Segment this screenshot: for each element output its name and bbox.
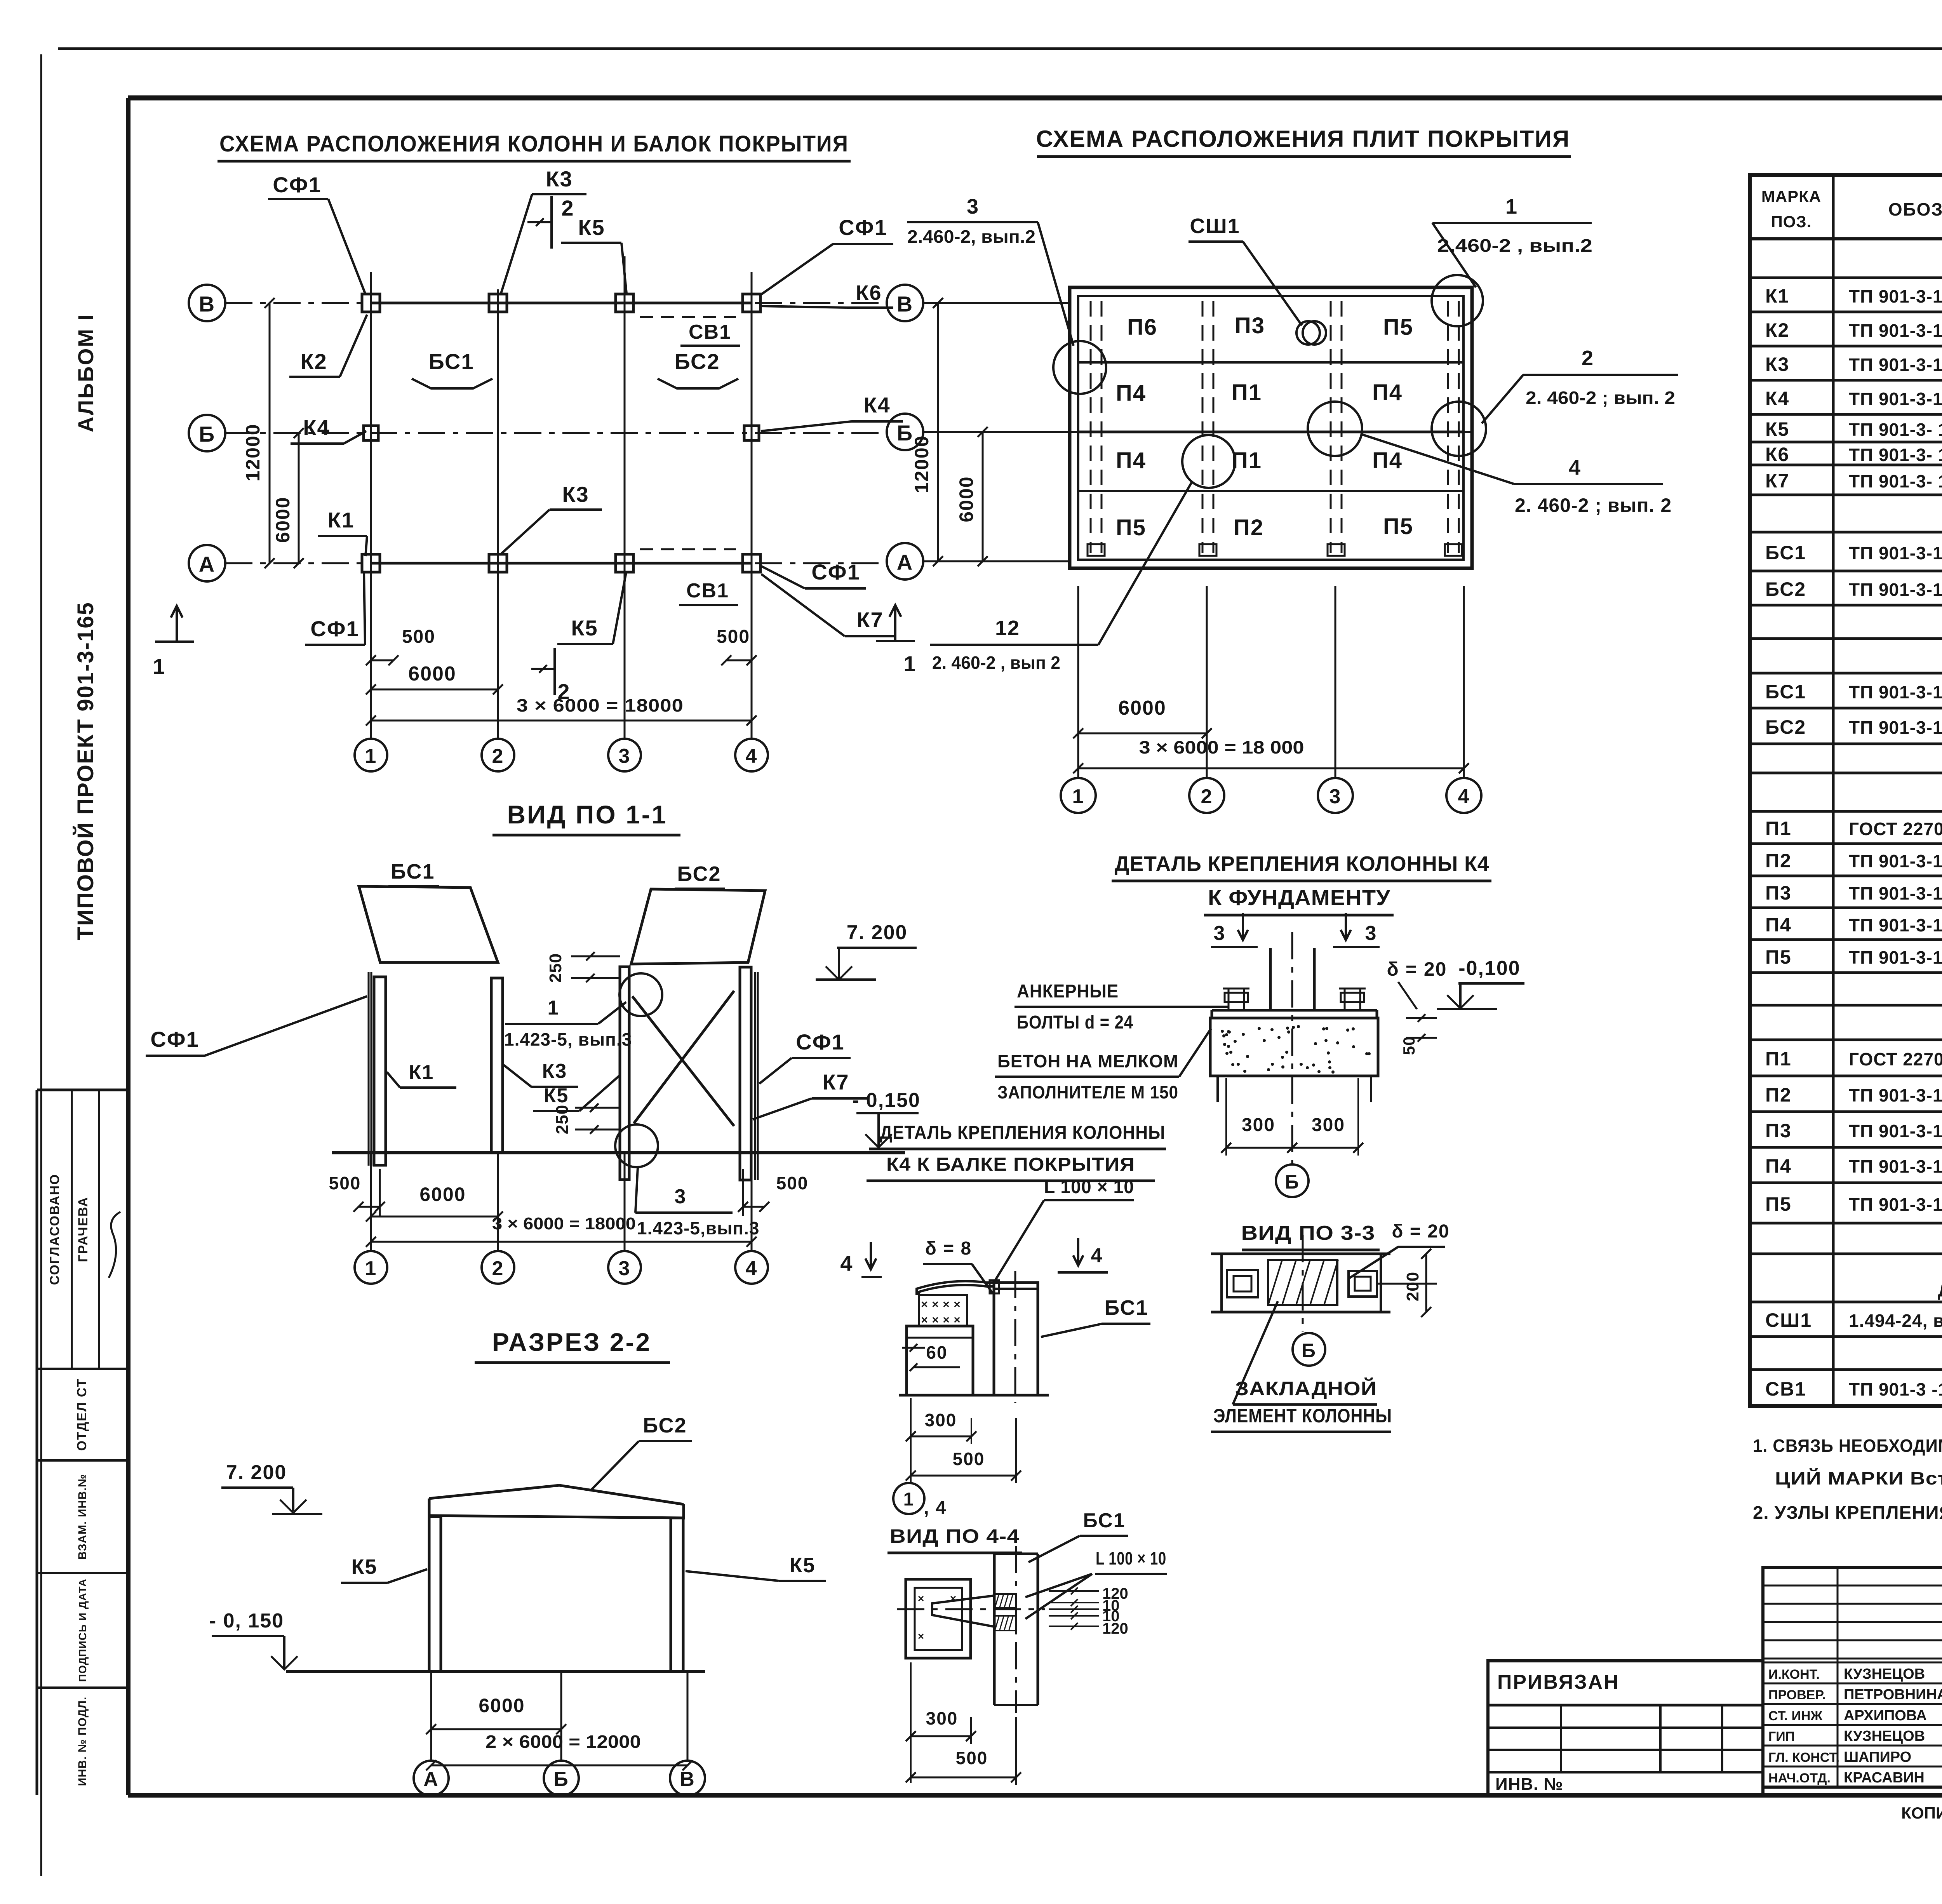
svg-text:ОТДЕЛ СТ: ОТДЕЛ СТ — [75, 1378, 89, 1451]
svg-text:7. 200: 7. 200 — [226, 1461, 287, 1484]
axis line 3 vertical — [624, 256, 626, 739]
table row П2 — [1765, 1084, 1942, 1106]
svg-text:1: 1 — [903, 1489, 915, 1510]
slab label П4 — [1116, 448, 1146, 473]
callout circle top-right (1) — [1432, 275, 1483, 326]
svg-text:К7: К7 — [856, 607, 883, 632]
label K3 K5 vid11 — [504, 1060, 619, 1111]
svg-text:АЛЬБОМ I: АЛЬБОМ I — [73, 313, 98, 432]
svg-text:2.460-2, вып.2: 2.460-2, вып.2 — [907, 226, 1035, 247]
column cap with studs — [919, 1295, 967, 1326]
svg-text:П2: П2 — [1234, 515, 1264, 540]
svg-text:КУЗНЕЦОВ: КУЗНЕЦОВ — [1844, 1666, 1925, 1682]
svg-text:, 4: , 4 — [924, 1498, 947, 1518]
label SF1 right vid11 — [759, 1030, 851, 1084]
svg-text:300: 300 — [1312, 1115, 1345, 1135]
svg-text:П5: П5 — [1116, 515, 1146, 540]
svg-text:1: 1 — [903, 651, 916, 676]
brace SV1 top dashed — [640, 316, 736, 318]
callout circle mid (12) — [1182, 435, 1235, 488]
column K5 bottom square — [616, 554, 633, 572]
joint line axis4 — [1445, 301, 1462, 556]
svg-text:П3: П3 — [1235, 313, 1265, 338]
svg-text:СВ1: СВ1 — [689, 321, 731, 343]
svg-text:ТИПОВОЙ ПРОЕКТ 901-3-165: ТИПОВОЙ ПРОЕКТ 901-3-165 — [73, 602, 98, 940]
elevation -0.150 razrez — [209, 1610, 298, 1669]
svg-text:К3: К3 — [562, 482, 589, 506]
svg-text:СХЕМА РАСПОЛОЖЕНИЯ КОЛОНН И БА: СХЕМА РАСПОЛОЖЕНИЯ КОЛОНН И БАЛОК ПОКРЫТ… — [219, 131, 849, 157]
dim 50 — [1400, 1014, 1437, 1055]
label K1 vid11 — [387, 1061, 456, 1088]
svg-text:К5: К5 — [571, 616, 598, 640]
elevation 7.200 vid11 — [816, 921, 917, 980]
svg-text:ГОСТ 22701.1- 77: ГОСТ 22701.1- 77 — [1849, 819, 1942, 839]
grid circle А plan2 — [887, 543, 923, 580]
svg-text:ЦИЙ МАРКИ ВстЗ кп2 КЛАССА: ЦИЙ МАРКИ ВстЗ кп2 КЛАССА С 38/23 ГОСТ 3… — [1775, 1468, 1942, 1488]
svg-text:П2: П2 — [1765, 1084, 1792, 1106]
dim 12000 vertical plan2 — [911, 298, 943, 566]
axis line V plan2 — [923, 302, 1070, 304]
personnel row ГЛ. КОНСТ. — [1768, 1749, 1911, 1765]
label L100x10 detail — [994, 1177, 1134, 1282]
svg-text:К5: К5 — [544, 1084, 569, 1107]
dim 300 vid44 — [906, 1662, 976, 1783]
dim 200 vid33 — [1377, 1249, 1437, 1317]
label BS2 razrez — [590, 1414, 692, 1491]
svg-text:БС1: БС1 — [391, 860, 435, 883]
title: razrez 2-2 — [475, 1328, 670, 1363]
elevation 7.200 razrez — [221, 1461, 322, 1514]
slab label П5 — [1383, 514, 1413, 539]
strip text vzam inv — [76, 1474, 89, 1559]
title: vid po 3-3 — [1241, 1221, 1450, 1278]
svg-text:БС2: БС2 — [643, 1414, 687, 1437]
svg-text:2: 2 — [561, 196, 574, 220]
label BS2 vid11 — [675, 862, 725, 889]
svg-text:ДЕТАЛЬ КРЕПЛЕНИЯ КОЛОННЫ К4: ДЕТАЛЬ КРЕПЛЕНИЯ КОЛОННЫ К4 — [1115, 852, 1490, 875]
dim 500 left vid11 — [329, 1169, 385, 1216]
svg-text:ТП 901-3- 165: ТП 901-3- 165 — [1849, 445, 1942, 465]
svg-text:×: × — [921, 1298, 928, 1311]
svg-text:БС2: БС2 — [1765, 578, 1806, 600]
svg-text:300: 300 — [1242, 1115, 1275, 1135]
svg-text:×: × — [943, 1314, 950, 1326]
svg-text:4: 4 — [1091, 1244, 1103, 1267]
note 2 — [1753, 1502, 1942, 1523]
svg-text:12000: 12000 — [911, 435, 933, 493]
svg-text:К3: К3 — [1765, 353, 1789, 375]
base plate — [1212, 1010, 1377, 1018]
label anchor bolts — [1015, 981, 1228, 1033]
svg-text:ТП 901-3-165: ТП 901-3-165 — [1849, 389, 1942, 409]
svg-text:Б: Б — [553, 1768, 569, 1791]
table row БС1 — [1765, 542, 1942, 564]
svg-text:2. 460-2 ; вып. 2: 2. 460-2 ; вып. 2 — [1526, 388, 1675, 408]
callout circle 1 vid11 — [619, 973, 662, 1016]
axis line A plan2 — [923, 560, 1070, 562]
table row П1 — [1765, 818, 1942, 839]
svg-text:К5: К5 — [1765, 418, 1789, 440]
dim 250 upper vid11 — [546, 952, 620, 983]
roof beam line row V — [371, 302, 752, 305]
svg-text:К1: К1 — [409, 1061, 434, 1084]
svg-text:ВИД ПО 3-3: ВИД ПО 3-3 — [1241, 1222, 1375, 1244]
grid circle В razrez — [670, 1672, 705, 1796]
section mark 2 top — [527, 196, 574, 249]
dim 500 right plan1 — [717, 627, 757, 665]
svg-text:ТП 901-3-165: ТП 901-3-165 — [1849, 355, 1942, 375]
svg-text:ТП 901-3- 165: ТП 901-3- 165 — [1849, 471, 1942, 491]
table row К7 — [1765, 470, 1942, 492]
column K4 shaft — [1270, 932, 1314, 1165]
svg-text:СФ1: СФ1 — [796, 1030, 844, 1054]
dim 6000 vid11 — [366, 1183, 503, 1222]
grid circle 4 vid11 — [735, 1153, 768, 1284]
column K7 pos square — [743, 554, 760, 572]
svg-text:ВЗАМ. ИНВ.№: ВЗАМ. ИНВ.№ — [76, 1474, 89, 1559]
label CSh1 — [1189, 214, 1302, 325]
table row П1 — [1765, 1048, 1942, 1070]
slab label П4 — [1372, 380, 1403, 405]
svg-text:А: А — [423, 1768, 439, 1791]
callout circle 3 vid11 — [615, 1124, 658, 1167]
column right razrez — [671, 1518, 683, 1672]
svg-text:В: В — [897, 292, 913, 316]
svg-text:СФ1: СФ1 — [273, 172, 321, 197]
svg-text:ПОДПИСЬ И ДАТА: ПОДПИСЬ И ДАТА — [77, 1579, 89, 1682]
svg-text:1. СВЯЗЬ НЕОБХОДИМО ВЫПОЛНЯТЬ: 1. СВЯЗЬ НЕОБХОДИМО ВЫПОЛНЯТЬ ИЗ УГЛЕРОД… — [1753, 1436, 1942, 1456]
slab label П3 — [1235, 313, 1265, 338]
svg-text:СФ1: СФ1 — [310, 616, 359, 641]
X bracing vid11 — [632, 991, 734, 1126]
svg-text:ГЛ. КОНСТ.: ГЛ. КОНСТ. — [1768, 1750, 1839, 1765]
svg-text:П6: П6 — [1127, 315, 1157, 340]
svg-text:СТ. ИНЖ: СТ. ИНЖ — [1768, 1709, 1823, 1723]
svg-text:300: 300 — [926, 1708, 958, 1728]
beam BS2 trapezoid — [631, 889, 765, 964]
label K6 — [761, 281, 893, 308]
svg-text:×: × — [932, 1298, 939, 1311]
svg-text:50: 50 — [1400, 1036, 1418, 1055]
table merged section cells mask — [1836, 241, 1942, 1368]
svg-text:6000: 6000 — [955, 476, 977, 522]
svg-text:К7: К7 — [1765, 470, 1789, 492]
roof beam line row A — [371, 562, 752, 565]
joint line axis3 — [1328, 301, 1345, 556]
svg-text:Б: Б — [199, 422, 215, 446]
svg-text:А: А — [199, 552, 215, 576]
label embedded element — [1211, 1301, 1392, 1432]
grid circle 3 vid11 — [608, 1153, 641, 1284]
dim 3x6000=18000 plan1 — [366, 695, 757, 726]
table row П3 — [1765, 882, 1942, 904]
grid circle 1 plan2 — [1061, 778, 1096, 813]
grid circle А — [189, 545, 241, 581]
svg-text:ПОЗ.: ПОЗ. — [1771, 212, 1812, 231]
dim 500 left plan1 — [366, 627, 435, 665]
svg-text:ДЕТАЛЬ КРЕПЛЕНИЯ КОЛОННЫ: ДЕТАЛЬ КРЕПЛЕНИЯ КОЛОННЫ — [880, 1123, 1166, 1143]
left strip table — [37, 1090, 128, 1795]
personnel row ПРОВЕР. — [1768, 1686, 1942, 1703]
kopiroval text — [1901, 1804, 1942, 1822]
slab label П1 — [1232, 448, 1262, 473]
label SV1 bottom — [679, 580, 738, 605]
callout circle mid-right (4) — [1308, 402, 1362, 456]
joint line axis2 — [1199, 301, 1216, 556]
svg-text:П4: П4 — [1116, 448, 1146, 473]
svg-text:П1: П1 — [1765, 1048, 1792, 1070]
label L100x10 vid44 — [1025, 1548, 1167, 1619]
slab label П6 — [1127, 315, 1157, 340]
svg-text:2: 2 — [557, 679, 570, 704]
svg-text:3 × 6000 = 18 000: 3 × 6000 = 18 000 — [1139, 737, 1304, 757]
joint line axis1 — [1088, 301, 1105, 556]
grid circle 1 plan1 — [355, 739, 387, 771]
svg-text:1: 1 — [1072, 785, 1084, 808]
grid circle 2 plan2 — [1189, 778, 1224, 813]
label delta 8 — [923, 1238, 993, 1293]
svg-text:БС2: БС2 — [677, 862, 721, 886]
axis line V — [225, 302, 887, 304]
ground line vid11 — [332, 1151, 905, 1154]
svg-text:П5: П5 — [1765, 1193, 1792, 1215]
svg-text:1: 1 — [365, 1257, 377, 1280]
svg-text:ТП 901-3-165: ТП 901-3-165 — [1849, 883, 1942, 903]
svg-text:К7: К7 — [822, 1070, 849, 1094]
svg-text:П4: П4 — [1116, 381, 1146, 406]
column left razrez — [429, 1517, 441, 1672]
section mark 4 top — [1058, 1238, 1108, 1272]
note 1 line1 — [1753, 1436, 1942, 1456]
axis circle 1,4 — [893, 1483, 947, 1518]
svg-text:П4: П4 — [1372, 448, 1403, 473]
personnel row НАЧ.ОТД. — [1768, 1770, 1925, 1786]
glass SSh1 circles — [1296, 321, 1326, 345]
svg-text:2.460-2 , вып.2: 2.460-2 , вып.2 — [1437, 235, 1592, 256]
axis line B — [225, 432, 885, 434]
svg-text:БС1: БС1 — [428, 349, 474, 374]
label K4 left — [291, 415, 366, 444]
svg-text:К4 К БАЛКЕ ПОКРЫТИЯ: К4 К БАЛКЕ ПОКРЫТИЯ — [886, 1154, 1135, 1175]
svg-text:200: 200 — [1403, 1272, 1422, 1301]
grid circle В — [189, 285, 241, 321]
svg-text:ТП 901-3-165: ТП 901-3-165 — [1849, 1085, 1942, 1105]
svg-text:П4: П4 — [1372, 380, 1403, 405]
svg-text:500: 500 — [402, 627, 435, 647]
svg-text:2. УЗЛЫ КРЕПЛЕНИЯ БАЛОК , З: 2. УЗЛЫ КРЕПЛЕНИЯ БАЛОК , ЗАДЕЛКИ КОЛОНН… — [1753, 1502, 1942, 1523]
svg-text:В: В — [199, 292, 215, 316]
svg-text:А: А — [897, 550, 913, 574]
table row БС1 — [1765, 681, 1942, 703]
strip text otdel st — [75, 1378, 89, 1451]
svg-text:3: 3 — [1214, 922, 1226, 945]
table row К2 — [1765, 319, 1942, 341]
label BS1 detail — [1041, 1296, 1150, 1337]
column K4 right square — [744, 426, 759, 440]
label SF1 top-left — [268, 172, 365, 293]
svg-text:К4: К4 — [303, 415, 330, 440]
svg-text:К5: К5 — [578, 215, 605, 240]
svg-text:×: × — [950, 1592, 957, 1605]
svg-text:12000: 12000 — [242, 423, 264, 481]
personnel table grid — [1763, 1567, 1942, 1787]
svg-text:СВ1: СВ1 — [1765, 1378, 1806, 1400]
title: scheme of columns and roof beams — [218, 131, 851, 161]
beam BS1 section — [994, 1271, 1038, 1403]
svg-text:РАЗРЕЗ 2-2: РАЗРЕЗ 2-2 — [492, 1328, 651, 1356]
column K3 top square — [489, 294, 507, 312]
tapered connector vid44 — [897, 1596, 1045, 1627]
label SV1 top — [680, 321, 740, 346]
slab row line 3 — [1078, 490, 1463, 492]
svg-text:МАРКА: МАРКА — [1761, 187, 1821, 205]
svg-text:L 100 × 10: L 100 × 10 — [1096, 1548, 1166, 1568]
svg-text:ТП 901-3-165 КЖИ-БС1; 2: ТП 901-3-165 КЖИ-БС1; 2 — [1849, 580, 1942, 600]
svg-text:7. 200: 7. 200 — [847, 921, 908, 944]
svg-text:ОБОЗНАЧЕНИЕ: ОБОЗНАЧЕНИЕ — [1888, 199, 1942, 219]
svg-text:ТП 901-3-165: ТП 901-3-165 — [1849, 947, 1942, 968]
svg-text:δ = 20: δ = 20 — [1387, 958, 1447, 980]
grid circle 1 vid11 — [355, 1153, 387, 1284]
svg-text:ТП 901-3-165: ТП 901-3-165 — [1849, 915, 1942, 935]
svg-text:500: 500 — [329, 1173, 361, 1193]
svg-text:- 0, 150: - 0, 150 — [209, 1610, 284, 1632]
svg-text:БС2: БС2 — [674, 349, 720, 374]
axis line A — [225, 562, 887, 564]
svg-text:4: 4 — [840, 1251, 853, 1276]
title: vid po 4-4 — [887, 1525, 1022, 1553]
table row П3 — [1765, 1120, 1942, 1142]
dim 300 300 — [1221, 1078, 1363, 1156]
svg-text:БОЛТЫ d = 24: БОЛТЫ d = 24 — [1017, 1012, 1133, 1033]
label 4 / 2.460-2 vyp.2 — [1361, 434, 1672, 516]
grid circle 4 plan1 — [735, 739, 768, 771]
svg-text:СФ1: СФ1 — [150, 1027, 199, 1051]
svg-text:БС1: БС1 — [1765, 542, 1806, 564]
svg-text:2: 2 — [492, 745, 504, 768]
section mark 4 right — [840, 1242, 882, 1277]
label K2 — [289, 315, 367, 377]
svg-text:ТП 901-3-165 КЖИ-БС1; 2: ТП 901-3-165 КЖИ-БС1; 2 — [1849, 682, 1942, 702]
svg-text:3: 3 — [619, 1257, 631, 1280]
svg-text:ПРОВЕР.: ПРОВЕР. — [1768, 1688, 1825, 1702]
svg-text:К6: К6 — [1765, 444, 1789, 465]
svg-text:К1: К1 — [327, 508, 354, 532]
svg-text:1: 1 — [153, 654, 165, 679]
svg-text:К3: К3 — [542, 1060, 567, 1083]
svg-text:П2: П2 — [1765, 850, 1792, 872]
svg-text:2. 460-2 , вып 2: 2. 460-2 , вып 2 — [932, 653, 1060, 673]
svg-text:ТП 901-3-165: ТП 901-3-165 — [1849, 851, 1942, 871]
svg-text:К ФУНДАМЕНТУ: К ФУНДАМЕНТУ — [1208, 885, 1390, 910]
dim 6000 plan1 — [366, 663, 503, 694]
svg-text:ЭЛЕМЕНТ КОЛОННЫ: ЭЛЕМЕНТ КОЛОННЫ — [1213, 1405, 1392, 1427]
svg-text:6000: 6000 — [479, 1695, 525, 1716]
svg-text:ПРИВЯЗАН: ПРИВЯЗАН — [1497, 1671, 1620, 1693]
svg-text:2. 460-2 ; вып. 2: 2. 460-2 ; вып. 2 — [1515, 494, 1672, 516]
dim 3x6000=18000 vid11 — [366, 1214, 757, 1247]
grid circle Б plan2 — [887, 414, 923, 450]
table row П4 — [1765, 1155, 1942, 1177]
title: detail K4 to foundation — [1112, 852, 1491, 915]
table row СВ1 — [1765, 1378, 1942, 1400]
svg-text:В: В — [680, 1768, 695, 1791]
slab label П5 — [1383, 315, 1413, 340]
foundation block — [1210, 1018, 1378, 1102]
svg-text:250: 250 — [546, 953, 565, 983]
grid circle Б razrez — [544, 1672, 579, 1796]
svg-text:П4: П4 — [1765, 1155, 1792, 1177]
dim 3x6000=18000 plan2 — [1073, 737, 1469, 773]
svg-text:6000: 6000 — [419, 1183, 466, 1205]
svg-text:К2: К2 — [300, 349, 327, 374]
axis 3 vertical plan2 — [1335, 586, 1336, 778]
grid circle 4 plan2 — [1446, 778, 1481, 813]
dim 6000 vertical plan1 — [272, 428, 304, 568]
axis 2 vertical plan2 — [1206, 586, 1208, 778]
svg-text:×: × — [918, 1592, 925, 1605]
svg-text:ТП 901-3-165: ТП 901-3-165 — [1849, 1194, 1942, 1215]
svg-text:3 × 6000 = 18000: 3 × 6000 = 18000 — [517, 695, 684, 715]
svg-text:2 × 6000 = 12000: 2 × 6000 = 12000 — [486, 1732, 641, 1752]
slab row line 1 — [1078, 361, 1463, 364]
svg-text:ИНВ. № ПОДЛ.: ИНВ. № ПОДЛ. — [76, 1697, 89, 1786]
column block below cap — [907, 1326, 973, 1395]
dim 300 detail — [906, 1398, 976, 1482]
grid circle 3 plan1 — [608, 739, 641, 771]
elevation -0.150 vid11 — [852, 1089, 921, 1147]
svg-text:6000: 6000 — [408, 663, 456, 685]
svg-text:ТП 901-3-165: ТП 901-3-165 — [1849, 320, 1942, 341]
svg-text:СШ1: СШ1 — [1765, 1309, 1812, 1331]
dim 12000 vertical plan1 — [242, 298, 275, 568]
column K1 vid11 — [369, 972, 386, 1166]
svg-text:П1: П1 — [1232, 380, 1262, 405]
svg-text:3: 3 — [619, 745, 631, 768]
label K5 bottom — [557, 573, 626, 644]
slab section rect vid33 — [1211, 1254, 1390, 1312]
dim 6000 vertical plan2 — [955, 427, 988, 566]
table row К6 — [1765, 444, 1942, 465]
slab plan inner rect — [1078, 296, 1463, 560]
svg-text:КРАСАВИН: КРАСАВИН — [1844, 1770, 1925, 1786]
label K3 bottom — [500, 482, 602, 555]
grid circle 3 plan2 — [1318, 778, 1353, 813]
svg-text:12: 12 — [995, 616, 1020, 640]
slab label П5 — [1116, 515, 1146, 540]
table row К1 — [1765, 285, 1942, 307]
svg-text:3 × 6000 = 18000: 3 × 6000 = 18000 — [492, 1214, 636, 1233]
svg-text:L 100 × 10: L 100 × 10 — [1044, 1177, 1134, 1197]
svg-text:2: 2 — [1582, 346, 1594, 370]
table header marka — [1761, 187, 1821, 231]
column K3 vid11 — [491, 978, 503, 1153]
roof line razrez — [429, 1485, 684, 1519]
label K4 right — [761, 393, 903, 431]
dim 6000 plan2 — [1073, 697, 1212, 738]
column K5 vid11 — [620, 967, 629, 1180]
anchor bolts — [1223, 989, 1366, 1010]
svg-text:×: × — [932, 1314, 939, 1326]
svg-text:120: 120 — [1102, 1620, 1128, 1637]
label 12 / 2.460-2 vyp 2 — [930, 482, 1192, 673]
svg-text:×: × — [921, 1314, 928, 1326]
svg-text:К6: К6 — [856, 281, 882, 305]
label 2 / 2.460-2 vyp.2 — [1482, 346, 1678, 423]
svg-text:К1: К1 — [1765, 285, 1789, 307]
svg-text:К5: К5 — [352, 1555, 378, 1579]
svg-text:БЕТОН НА МЕЛКОМ: БЕТОН НА МЕЛКОМ — [997, 1051, 1178, 1071]
